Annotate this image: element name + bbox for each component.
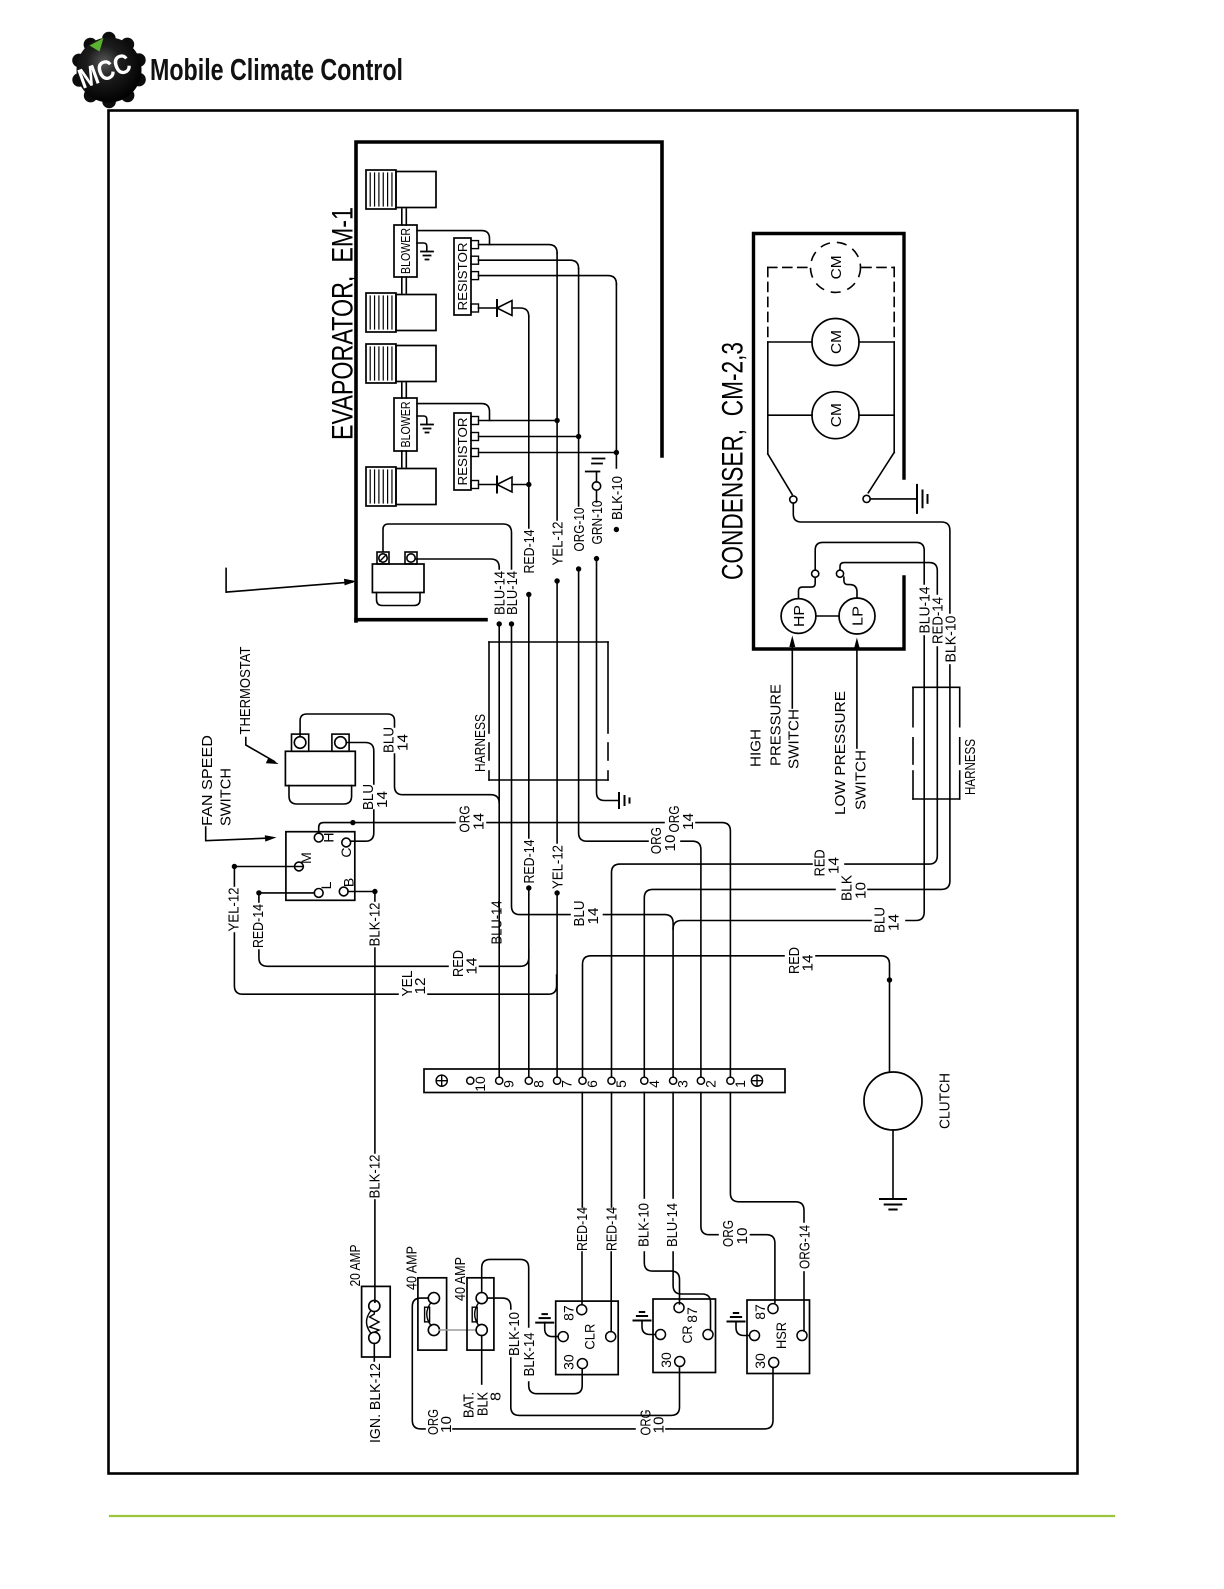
svg-text:RED-14: RED-14 [574,1207,591,1251]
svg-text:HARNESS: HARNESS [472,714,489,772]
svg-text:6: 6 [584,1080,600,1088]
svg-text:THERMOSTAT: THERMOSTAT [237,647,254,735]
svg-text:HARNESS: HARNESS [962,739,979,795]
svg-text:RESISTOR: RESISTOR [455,243,470,311]
svg-text:20 AMP: 20 AMP [347,1245,364,1287]
svg-text:YEL-12: YEL-12 [226,888,243,932]
svg-text:14: 14 [680,813,697,830]
svg-text:BLOWER: BLOWER [398,228,413,274]
svg-text:BLU-14: BLU-14 [664,1203,681,1247]
svg-text:RED-14: RED-14 [250,904,267,948]
svg-text:ORG-10: ORG-10 [571,508,588,552]
svg-text:RESISTOR: RESISTOR [455,418,470,486]
svg-text:14: 14 [825,857,842,874]
svg-text:BLOWER: BLOWER [398,402,413,448]
svg-text:SWITCH: SWITCH [852,750,869,810]
svg-text:30: 30 [752,1353,768,1369]
svg-text:40 AMP: 40 AMP [403,1246,420,1290]
svg-text:CR: CR [679,1326,695,1344]
svg-text:GRN-10: GRN-10 [589,501,606,545]
svg-text:CLUTCH: CLUTCH [936,1073,953,1129]
svg-text:14: 14 [585,908,602,925]
svg-text:14: 14 [799,955,816,972]
svg-text:14: 14 [470,813,487,830]
svg-text:CM: CM [828,255,845,279]
svg-text:RED-14: RED-14 [521,530,538,574]
svg-text:8: 8 [487,1392,504,1401]
svg-text:CM: CM [828,330,845,354]
svg-text:10: 10 [650,1417,667,1434]
svg-text:BLU-14: BLU-14 [488,901,505,945]
svg-text:5: 5 [613,1080,629,1088]
svg-text:LOW PRESSURE: LOW PRESSURE [832,691,849,815]
svg-text:IGN. BLK-12: IGN. BLK-12 [367,1363,384,1443]
svg-text:2: 2 [702,1080,718,1088]
svg-text:ORG-14: ORG-14 [796,1225,813,1269]
svg-text:FAN SPEED: FAN SPEED [199,735,216,826]
svg-text:SWITCH: SWITCH [217,768,234,826]
svg-text:RED-14: RED-14 [603,1207,620,1251]
svg-text:1: 1 [732,1080,748,1088]
svg-text:PRESSURE: PRESSURE [767,684,784,766]
svg-text:BLK-10: BLK-10 [635,1203,652,1247]
svg-text:CONDENSER, CM-2,3: CONDENSER, CM-2,3 [716,342,749,580]
svg-text:8: 8 [530,1080,546,1088]
svg-text:B: B [341,878,357,887]
svg-text:40 AMP: 40 AMP [452,1257,469,1301]
svg-text:C: C [338,847,354,857]
svg-text:12: 12 [412,978,429,995]
svg-text:10: 10 [734,1228,751,1245]
svg-text:10: 10 [438,1416,455,1433]
svg-text:HP: HP [791,605,808,627]
svg-text:14: 14 [394,734,411,751]
svg-text:87: 87 [561,1305,577,1321]
svg-text:14: 14 [885,914,902,931]
svg-text:BLU-14: BLU-14 [504,571,521,615]
svg-text:BLK-10: BLK-10 [506,1312,523,1356]
svg-text:10: 10 [852,882,869,899]
svg-text:9: 9 [501,1080,517,1088]
svg-text:BLK-12: BLK-12 [367,1155,384,1199]
svg-text:10: 10 [472,1076,488,1092]
svg-text:HIGH: HIGH [747,729,764,767]
svg-text:BLK-12: BLK-12 [367,903,384,947]
svg-text:30: 30 [658,1352,674,1368]
svg-text:H: H [321,833,337,843]
svg-text:M: M [298,852,314,864]
svg-text:Mobile Climate Control: Mobile Climate Control [150,53,403,87]
svg-text:BLK-10: BLK-10 [942,616,959,663]
svg-text:BLK-14: BLK-14 [521,1333,538,1377]
svg-text:14: 14 [463,958,480,975]
svg-text:14: 14 [374,791,391,808]
svg-text:SWITCH: SWITCH [785,709,802,769]
svg-text:RED-14: RED-14 [521,840,538,884]
svg-text:4: 4 [646,1080,662,1088]
svg-text:30: 30 [561,1354,577,1370]
svg-text:10: 10 [662,835,679,852]
svg-text:7: 7 [559,1080,575,1088]
svg-text:CM: CM [828,403,845,427]
svg-text:HSR: HSR [773,1322,789,1349]
svg-text:BLK-10: BLK-10 [609,476,626,520]
svg-text:YEL-12: YEL-12 [550,522,567,566]
svg-text:CLR: CLR [582,1324,598,1350]
svg-text:YEL-12: YEL-12 [550,845,567,889]
svg-text:L: L [318,881,334,889]
svg-text:87: 87 [684,1307,700,1323]
svg-text:EVAPORATOR, EM-1: EVAPORATOR, EM-1 [326,207,359,440]
svg-text:87: 87 [752,1304,768,1320]
svg-text:LP: LP [849,606,866,626]
svg-text:3: 3 [675,1080,691,1088]
